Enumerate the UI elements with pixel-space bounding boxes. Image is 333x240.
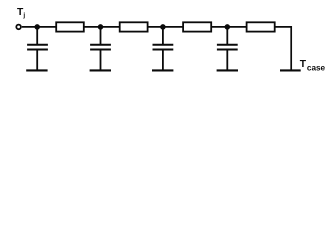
ground bar 3 bbox=[152, 69, 173, 71]
wire node1 to C1 bbox=[36, 27, 38, 45]
node 1 junction dot bbox=[34, 24, 40, 30]
ground bar 4 bbox=[217, 69, 238, 71]
capacitor C2 bbox=[90, 45, 111, 50]
svg-text:T: T bbox=[300, 59, 307, 70]
label Tj bbox=[17, 7, 25, 19]
resistor R4 bbox=[247, 22, 275, 31]
wire node2 to C2 bbox=[100, 27, 102, 45]
wire C3 to bottom bar bbox=[162, 50, 164, 71]
label Tcase bbox=[300, 59, 326, 72]
capacitor C3 bbox=[153, 45, 174, 50]
node 3 junction dot bbox=[160, 24, 166, 30]
wire node4 to C4 bbox=[226, 27, 228, 45]
ground bar 2 bbox=[90, 69, 111, 71]
wire node3 to C3 bbox=[162, 27, 164, 45]
node Tj terminal (open circle) bbox=[16, 25, 21, 30]
capacitor C1 bbox=[27, 45, 48, 50]
resistor R3 bbox=[183, 22, 211, 31]
wire C4 to bottom bar bbox=[226, 50, 228, 71]
wire C2 to bottom bar bbox=[100, 50, 102, 71]
ground bar 1 bbox=[26, 69, 47, 71]
svg-text:case: case bbox=[307, 64, 326, 73]
svg-text:j: j bbox=[22, 12, 25, 19]
node 2 junction dot bbox=[98, 24, 104, 30]
capacitor C4 bbox=[217, 45, 238, 50]
ground bar Tcase bbox=[280, 69, 301, 71]
wire top rail with right drop to case bbox=[22, 27, 291, 70]
wire C1 to bottom bar bbox=[36, 50, 38, 71]
node 4 junction dot bbox=[225, 24, 231, 30]
resistor R2 bbox=[120, 22, 148, 31]
resistor R1 bbox=[56, 22, 84, 31]
